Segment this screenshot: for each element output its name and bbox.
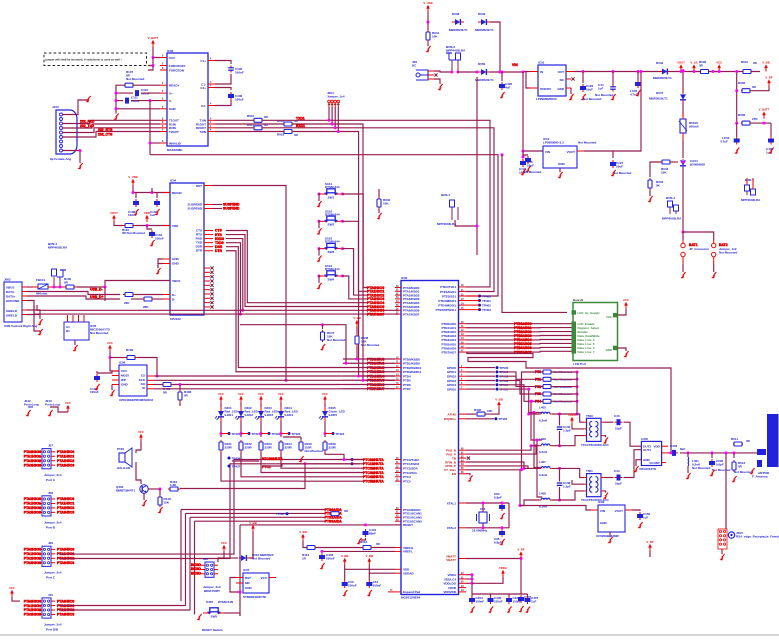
power VCC LED3 (260, 399, 262, 403)
svg-text:R109: R109 (126, 348, 134, 352)
power V_RF right (768, 83, 770, 87)
pin PTB0/AD0 (441, 321, 466, 326)
wire portC run (59, 460, 344, 555)
capacitor C106 100nF (228, 92, 244, 102)
svg-text:RESET Switch: RESET Switch (202, 628, 223, 632)
wire t2 b (572, 480, 584, 484)
switch SW1 (320, 182, 342, 199)
pin stub stm3 (269, 577, 276, 579)
pin stub susp (204, 204, 212, 206)
svg-text:1.2pF: 1.2pF (563, 485, 571, 489)
ground c30 (344, 590, 347, 594)
svg-text:100nF: 100nF (90, 390, 99, 394)
svg-text:IRQ/RCe: IRQ/RCe (444, 417, 457, 421)
junction pad_p j (535, 444, 538, 447)
junction DB9 gnd node (79, 149, 82, 152)
wire bdm vcc (218, 552, 224, 562)
wire so pre (154, 384, 162, 386)
wire xc in (520, 506, 591, 511)
svg-text:26K: 26K (143, 305, 149, 309)
pin PTG3/SCAN3 (395, 520, 422, 524)
svg-text:jumper will shall be mounted,: jumper will shall be mounted, if switcho… (45, 57, 122, 61)
wire G2 rowL (340, 388, 343, 390)
wire vrf (520, 559, 522, 595)
LED D404 (275, 406, 299, 421)
wire c404 up (471, 594, 473, 597)
svg-text:V_BB: V_BB (353, 316, 360, 320)
svg-text:Jumper_1x4: Jumper_1x4 (327, 95, 345, 99)
svg-text:V_RF: V_RF (517, 548, 524, 552)
pin stub mic (78, 315, 80, 322)
svg-text:Board1: Board1 (573, 298, 584, 302)
connector J06 DC jack (412, 60, 434, 80)
svg-text:VCC: VCC (65, 401, 71, 405)
wire t501 out (603, 477, 613, 479)
ground r040 (379, 213, 382, 217)
wire v+ left (116, 92, 133, 94)
ground c402 (322, 563, 325, 567)
junction pad_n j (530, 444, 533, 447)
wire long pairB (34, 305, 395, 314)
wire r043 r (671, 161, 678, 163)
svg-text:TXD1: TXD1 (296, 116, 305, 120)
wire tp437 run (262, 464, 360, 466)
pin stub nc (204, 301, 214, 304)
svg-text:9p Female Ang: 9p Female Ang (50, 157, 71, 161)
power VDD usb (146, 218, 148, 222)
svg-text:PTC0MHUTA: PTC0MHUTA (262, 457, 283, 461)
wire sw5 up (239, 613, 241, 616)
svg-text:C1+: C1+ (200, 59, 206, 63)
wire vdd row (114, 222, 122, 226)
pin ldo gnd (566, 87, 571, 89)
wire d047 dn (682, 102, 684, 117)
pin xc r (625, 509, 632, 511)
svg-text:Not Mounted: Not Mounted (734, 470, 752, 474)
wire tp LED5 (325, 433, 333, 435)
resistor R048 (355, 334, 379, 347)
wire r044 d (427, 42, 429, 46)
svg-text:220R: 220R (245, 446, 253, 450)
resistor R501 NM (535, 377, 572, 381)
op-amp IC08 RF amp (639, 437, 662, 471)
wire cs run (157, 375, 340, 377)
svg-text:10K: 10K (383, 202, 389, 206)
ground ant (752, 468, 755, 472)
pin stub nc (204, 292, 214, 295)
wire bat rail (683, 232, 714, 240)
wire G3 row (300, 476, 363, 478)
svg-text:OUT1: OUT1 (643, 448, 651, 452)
wire vcc eep (110, 352, 119, 371)
svg-text:RXD1: RXD1 (296, 124, 305, 128)
diode CA04 (680, 159, 705, 167)
junction jumper node 1 (328, 119, 331, 122)
wire ldo out rail (574, 71, 760, 73)
wire SW3 gl (319, 249, 320, 256)
pin XTAL (447, 501, 466, 505)
svg-text:J08: J08 (48, 491, 53, 495)
test point TP401 (478, 299, 481, 302)
svg-text:MPP4453LRA: MPP4453LRA (446, 49, 466, 53)
svg-text:VIN: VIN (545, 150, 550, 154)
wire C2+ link (215, 88, 231, 91)
resistor R102 (123, 293, 135, 306)
wire susp run1 (212, 204, 222, 206)
wire SW4 gl (319, 276, 320, 283)
svg-text:SUSPEND: SUSPEND (187, 207, 202, 211)
capacitor C107 (90, 374, 100, 394)
junction led node LED3 (260, 432, 263, 435)
pin stub eep r (147, 388, 154, 390)
junction vcol j2 (735, 89, 738, 92)
power VOUT rail (680, 68, 682, 72)
pin lcd 3 (572, 333, 577, 338)
wire c146 vert b (559, 431, 561, 446)
wire stm rst (230, 578, 240, 593)
svg-text:V_BB: V_BB (495, 398, 502, 402)
ground mic (75, 345, 78, 349)
pin stub uart (204, 230, 213, 232)
svg-text:L407: L407 (539, 460, 546, 464)
svg-text:V_LB: V_LB (690, 61, 697, 65)
svg-text:MMBT3904T1: MMBT3904T1 (116, 489, 136, 493)
junction ifeed3 j (533, 411, 536, 414)
wire R2IN run (215, 127, 254, 129)
ground r047 (322, 344, 325, 348)
svg-text:PTC5MHUTA: PTC5MHUTA (363, 479, 384, 483)
wire sw5 out (224, 612, 240, 614)
svg-text:DTR: DTR (215, 249, 223, 253)
pin PTB6/AD6 (441, 345, 466, 350)
svg-text:T2OUT: T2OUT (169, 130, 179, 134)
junction vdda j1 (471, 573, 474, 576)
resistor R403 (259, 440, 273, 452)
svg-text:L405: L405 (539, 406, 546, 410)
pin xc l (591, 509, 598, 511)
svg-text:PTA2H3O2: PTA2H3O2 (24, 506, 41, 510)
svg-text:6.2nH: 6.2nH (539, 473, 547, 477)
pin PTC2/SDA (395, 466, 419, 470)
svg-text:LP2980IM5-3.3: LP2980IM5-3.3 (543, 141, 564, 145)
resistor R418 (158, 495, 171, 507)
junction q base node (159, 488, 162, 491)
polyfuse R5106 (679, 113, 700, 141)
ground c420 (502, 92, 505, 96)
LED D401 (215, 406, 239, 421)
resistor R412 1R (302, 546, 315, 561)
wire r036 out (751, 122, 771, 124)
ground c404 (472, 607, 475, 611)
wire c060 up (501, 502, 503, 505)
wire buzzer vcc (136, 441, 141, 453)
pin PTC0/TxD2 (395, 458, 419, 462)
wire xc vrf (649, 551, 651, 557)
svg-text:X25043/EEPROM/SOIC8: X25043/EEPROM/SOIC8 (119, 398, 153, 402)
svg-text:Not Mounted: Not Mounted (578, 141, 596, 145)
ground bat2 (713, 272, 716, 276)
pin V3OD (448, 586, 466, 590)
svg-text:DTSM-644: DTSM-644 (325, 267, 340, 271)
svg-text:Not Mounted: Not Mounted (583, 97, 601, 101)
pin stub nc (204, 305, 214, 308)
wire reset drop (239, 525, 241, 616)
connector J012 ProtoLoop (24, 399, 39, 416)
svg-text:PTA0H3O0: PTA0H3O0 (24, 450, 41, 454)
svg-text:V-: V- (169, 99, 172, 103)
svg-text:PTA0H3O0: PTA0H3O0 (24, 497, 41, 501)
resistor R109 10K (124, 348, 138, 370)
svg-text:READY: READY (169, 84, 180, 88)
power V_BB r048 (356, 323, 358, 327)
test point TP436 (228, 457, 231, 460)
wire gnd drop (157, 264, 159, 269)
wire buzzer dn (136, 462, 141, 484)
pin lcd 0 (572, 322, 577, 327)
test point TP407 (286, 512, 289, 515)
power VCC bdm (223, 548, 225, 552)
junction jumper node 2 (331, 123, 334, 126)
resistor R012 (360, 540, 381, 550)
pin lcd 6 (572, 345, 577, 350)
wire jumper drop (334, 107, 336, 128)
junction r502 node (576, 385, 579, 388)
ground ldo2 (560, 172, 563, 176)
svg-text:GND: GND (558, 162, 566, 166)
wire C1+ link (215, 61, 231, 65)
wire gnd row (116, 108, 160, 110)
svg-text:VCC: VCC (218, 392, 224, 396)
wire portD run (59, 605, 186, 607)
wire led LED2 (240, 403, 242, 407)
ground sw5 (199, 614, 202, 618)
svg-text:PTC5: PTC5 (403, 479, 411, 483)
junction so node (179, 383, 182, 386)
wire data- run (27, 292, 120, 295)
svg-text:PTE0/TxD1: PTE0/TxD1 (440, 285, 456, 289)
ground SW3 (319, 256, 322, 260)
wire tp436 run (232, 460, 259, 462)
svg-text:Port D/B: Port D/B (46, 627, 59, 631)
svg-text:J07: J07 (48, 444, 53, 448)
wire tp400 (466, 295, 480, 297)
svg-text:Not Mounted: Not Mounted (305, 449, 323, 453)
capacitor C108 (128, 199, 139, 217)
pin GPIO3 (447, 379, 466, 383)
power VCC rail (718, 68, 720, 72)
capacitor C124 (519, 156, 531, 175)
power V_RF vb (520, 555, 522, 559)
test point TP421 (248, 432, 251, 435)
wire jumper drop (328, 107, 330, 120)
svg-text:PTA3H5O3: PTA3H5O3 (57, 511, 74, 515)
pin stub (160, 84, 167, 86)
wire c107 (97, 371, 112, 373)
junction c10 node (522, 156, 525, 159)
capacitor C031 (366, 580, 381, 588)
wire r047 drop (322, 325, 324, 329)
resistor R421 0R (331, 509, 349, 516)
svg-text:V_BB: V_BB (762, 61, 769, 65)
switch SW2 (320, 209, 342, 226)
wire c407 up (527, 594, 529, 597)
wire lcd data 7 (466, 350, 572, 353)
svg-text:VOUT: VOUT (615, 509, 624, 513)
wire G1 row8 (395, 313, 398, 315)
test point TP424 (332, 432, 335, 435)
junction sw3 jr (341, 247, 344, 250)
connector J004 pin (334, 100, 337, 107)
wire bat1 g (682, 264, 684, 272)
pin PTA4/KBD4 (395, 300, 420, 305)
pin PTE3/MISO1 (438, 299, 466, 303)
wire ldo2 loop (613, 72, 641, 152)
connector J09 Port C (38, 541, 62, 580)
junction VCC node (152, 56, 155, 59)
junction rail j1 (582, 70, 585, 73)
svg-text:BDM PORT: BDM PORT (204, 589, 220, 593)
pin lcd 7 (572, 349, 577, 354)
svg-text:VBUS: VBUS (172, 279, 180, 283)
wire r042 dn (649, 190, 651, 196)
switch SW4 (320, 264, 342, 281)
transistor B05L4 batt (662, 196, 682, 221)
svg-text:VCC: VCC (169, 56, 176, 60)
wire ant down (725, 453, 727, 529)
wire d48-49 (490, 22, 500, 72)
ground r042 (650, 196, 653, 200)
wire regin vert (151, 188, 153, 193)
ground SW1 (319, 201, 322, 205)
pin PTD2/KBD10 (395, 366, 422, 370)
svg-text:LCD_Vo_Supply: LCD_Vo_Supply (578, 311, 601, 315)
wire ldo in (523, 71, 530, 74)
capacitor C44 (614, 469, 623, 486)
wire SW1 gl (319, 194, 320, 201)
capacitor C403 (670, 444, 686, 456)
junction sw4 jl (318, 275, 321, 278)
wire d- to ic (135, 294, 163, 296)
pin PTC3/SCL (395, 471, 418, 475)
wire ldo2 gnd (559, 168, 561, 172)
capacitor C110 (135, 88, 150, 96)
capacitor C104 (149, 230, 164, 241)
wire c104 (147, 226, 152, 230)
pin PTG2/SCAN2 (395, 516, 422, 520)
svg-text:WP: WP (121, 378, 126, 382)
pin stub stm1 (236, 577, 243, 579)
test point TP503 (496, 379, 499, 382)
wire rfic in2 (624, 450, 642, 478)
junction v478 top (476, 71, 479, 74)
power VCC eeprom (109, 348, 111, 352)
svg-text:R032: R032 (738, 81, 746, 85)
wire G4 row (186, 512, 325, 514)
svg-text:68nF: 68nF (369, 532, 376, 536)
pin PTA0/KBD0 (395, 286, 420, 290)
transistor B05L4 (48, 242, 68, 287)
junction rail j2 (612, 70, 615, 73)
wire vdda t1 (572, 424, 584, 429)
svg-text:J09: J09 (48, 541, 53, 545)
svg-text:26K: 26K (124, 301, 130, 305)
wire tp401 (466, 300, 480, 302)
test point TP402 (478, 304, 481, 307)
wire xtal loop a (482, 503, 484, 512)
svg-text:B05L4: B05L4 (666, 196, 675, 200)
wire G2 row (343, 358, 395, 360)
svg-text:10K: 10K (487, 409, 493, 413)
svg-text:TP436: TP436 (232, 456, 241, 460)
wire gpio r6 (499, 388, 529, 390)
svg-text:6.2nH: 6.2nH (539, 450, 547, 454)
junction ifeed1 j2 (527, 413, 530, 416)
svg-text:PTE5/SPSCK1: PTE5/SPSCK1 (436, 308, 457, 312)
wire lcd data 6 (466, 346, 572, 349)
svg-text:10K: 10K (432, 35, 438, 39)
junction c66 j (501, 526, 504, 529)
wire si run (154, 388, 340, 390)
pin stub rst (204, 185, 212, 187)
wire dc top (434, 71, 452, 72)
svg-text:C2-: C2- (201, 104, 206, 108)
capacitor C407 (525, 596, 539, 604)
connector J004 pin (328, 100, 331, 107)
test point TP403 (478, 308, 481, 311)
ground eep (112, 390, 115, 394)
wire DB9 pin4 (62, 128, 160, 133)
ground c122 (583, 94, 586, 98)
wire c148 vert a (559, 468, 561, 481)
pin PTE2/SS1 (442, 294, 466, 298)
junction bat node (682, 231, 685, 234)
wire tp403 (466, 309, 480, 311)
svg-text:VCC: VCC (716, 61, 722, 65)
ground shield (40, 319, 43, 323)
svg-text:PTA0H3O0: PTA0H3O0 (24, 599, 41, 603)
inductor L405 (539, 406, 552, 423)
svg-text:10uF: 10uF (527, 164, 534, 168)
pin stub (208, 127, 215, 129)
pin PTA1/KBD1 (395, 290, 420, 294)
junction portC green node (343, 458, 346, 461)
antenna ANT500 F_Antenna (752, 414, 779, 479)
resistor R036 27R (738, 113, 758, 125)
svg-text:Not Mounted: Not Mounted (126, 77, 144, 81)
pin stub mic (83, 315, 85, 322)
svg-text:TP421: TP421 (252, 432, 261, 436)
junction vdda j3 (471, 582, 474, 585)
capacitor C030 (342, 580, 357, 588)
ground c44 (613, 94, 616, 98)
pin PTA3/KBD3 (395, 297, 420, 301)
test point TP423 (288, 432, 291, 435)
test point TP420 (228, 432, 231, 435)
wire t1 a (552, 414, 584, 422)
capacitor C105 100nF (228, 66, 244, 75)
ground j500 (722, 554, 725, 558)
svg-text:VCC: VCC (9, 586, 15, 590)
wire portD run2 (59, 609, 190, 611)
svg-text:PTA0H5O0: PTA0H5O0 (57, 599, 74, 603)
junction v478 node (476, 225, 479, 228)
power VCC lcd (625, 305, 627, 309)
junction c60 j (501, 502, 504, 505)
svg-text:R018: R018 (277, 119, 285, 123)
power V_AB rail (693, 68, 695, 72)
junction ifeed4 j (519, 504, 522, 507)
wire vdda arrow link (472, 577, 503, 583)
